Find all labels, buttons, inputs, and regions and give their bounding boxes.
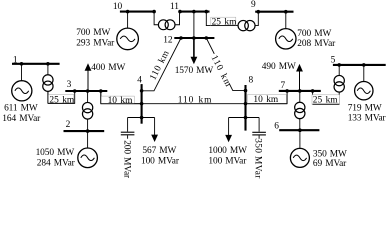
value label load bus12 [175, 66, 214, 76]
transformer T1011 bus10-bus11 [158, 20, 175, 30]
node bus11 T1011 [178, 10, 182, 14]
svg-text:12: 12 [163, 35, 173, 45]
node bus12 link [192, 36, 196, 40]
value label load bus3 [91, 63, 125, 73]
svg-text:110 km: 110 km [178, 96, 213, 106]
generator G9 at bus9 [276, 29, 296, 49]
node bus12 diag8 [205, 36, 209, 40]
node bus9 G9 [284, 10, 288, 14]
svg-text:25 km: 25 km [49, 95, 75, 105]
wire bus8 to bus7 10 km [246, 91, 288, 104]
load arrow 567 MW down at bus4 [151, 135, 158, 142]
bus 6 [279, 129, 319, 131]
wire diagonal 110 km bus12 to bus8 [206, 38, 245, 91]
bus 1 [12, 63, 60, 65]
label box 10 km between bus8 and bus7 [248, 95, 288, 106]
wire T1 down to 25 km elbow to bus3 [48, 91, 75, 103]
transformer T32 bus3-bus2 [82, 102, 92, 119]
value label at G1 [2, 104, 41, 125]
node bus5 T5 [337, 63, 341, 67]
node bus11 25km [205, 10, 209, 14]
value label at G5 [348, 103, 387, 123]
node bus3 T32 [86, 89, 90, 93]
svg-text:700 MW: 700 MW [297, 29, 331, 39]
label box 25 km between bus7 and T5 [312, 95, 340, 106]
svg-text:1000 MW: 1000 MW [208, 146, 247, 156]
wire bus8 load-capacitor tee [229, 117, 260, 119]
wire bus3 to transformer T32 [87, 91, 89, 102]
load arrow 1570 MW down at bus12 [191, 38, 198, 64]
node bus1 G1 [20, 62, 24, 66]
wire bus9 to generator G9 [285, 12, 287, 29]
value label load bus8 [208, 146, 247, 166]
wire load riser at bus4 [154, 118, 156, 136]
svg-text:100 MVar: 100 MVar [141, 157, 180, 167]
wire bus7 riser to 25 km line to T5 [313, 91, 340, 104]
wire bus10 to generator G10 [127, 12, 129, 29]
svg-text:293 MVar: 293 MVar [76, 39, 115, 49]
wire T119 to bus9 [255, 12, 258, 26]
svg-text:25 km: 25 km [212, 17, 238, 27]
node bus7 25km [311, 89, 315, 93]
wire bus2 to generator G2 [87, 131, 89, 148]
value label at G2 [36, 148, 76, 169]
svg-text:25 km: 25 km [313, 95, 339, 105]
svg-text:8: 8 [249, 76, 254, 86]
wire bus3 riser to 10 km line to bus4 [101, 91, 142, 104]
generator G6 at bus6 [290, 148, 309, 167]
svg-text:200 MVar: 200 MVar [122, 140, 132, 179]
svg-text:164 MVar: 164 MVar [2, 114, 41, 124]
transformer T1 below bus1 [43, 75, 53, 92]
load arrow 1000 MW down at bus8 [225, 135, 232, 142]
wire bus4 load-capacitor tee [128, 117, 155, 119]
capacitor C4 200 MVar at bus4 [121, 132, 135, 135]
wire bus11 to bus12 link [193, 12, 195, 38]
bus 9 [255, 11, 293, 13]
wire capacitor C8 stub [258, 135, 260, 138]
bus 4 vertical [141, 84, 143, 124]
node bus10 T1011 [152, 10, 156, 14]
bus 2 [64, 130, 105, 132]
wire load riser at bus8 [228, 118, 230, 136]
bus 11 [180, 11, 210, 13]
capacitor C8 350 MVar at bus8 [252, 132, 266, 135]
svg-text:611 MW: 611 MW [4, 104, 38, 114]
node bus7 T76 [298, 89, 302, 93]
node bus2 T32 [86, 129, 90, 133]
node bus3 10km [99, 89, 103, 93]
svg-text:284 MVar: 284 MVar [37, 159, 76, 169]
svg-text:350 MVar: 350 MVar [252, 138, 262, 179]
wire capacitor C4 riser [127, 118, 129, 132]
node bus8 load [244, 116, 248, 120]
transformer T5 below bus5 [334, 75, 344, 92]
label box 25 km between T1 and bus3 [48, 91, 75, 105]
svg-text:350 MW: 350 MW [313, 149, 347, 159]
svg-text:400 MW: 400 MW [91, 63, 125, 73]
svg-text:700 MW: 700 MW [76, 28, 110, 38]
wire T32 to bus2 [87, 119, 89, 131]
label box 10 km between bus3 and bus4 [101, 91, 142, 106]
generator G10 at bus10 [117, 28, 139, 50]
bus 7 [279, 90, 321, 92]
svg-text:208 MVar: 208 MVar [297, 39, 336, 49]
node bus4 diag [140, 89, 144, 93]
transformer T119 bus11-bus9 [238, 20, 255, 30]
wire bus5 to generator G5 [363, 65, 365, 82]
svg-text:100 MVar: 100 MVar [208, 157, 247, 167]
wire T1011 to bus11 [175, 12, 179, 25]
load arrow 400 MW up at bus3 [85, 63, 92, 91]
value label at G10 [76, 28, 115, 49]
node bus6 T76 [298, 128, 302, 132]
wire 110 km line bus4 to bus8 [142, 103, 246, 105]
bus 8 vertical [244, 85, 246, 131]
svg-text:9: 9 [251, 0, 256, 10]
generator G5 at bus5 [355, 82, 373, 100]
svg-text:567 MW: 567 MW [142, 146, 176, 156]
svg-text:6: 6 [274, 121, 279, 131]
value label load bus7 [262, 62, 296, 72]
wire capacitor C8 riser [258, 118, 260, 132]
svg-text:10: 10 [113, 2, 123, 12]
node bus11 link [192, 10, 196, 14]
wire bus1 to transformer T1 [47, 64, 49, 75]
wire diagonal 110 km bus12 to bus4 [142, 38, 181, 91]
bus 3 [65, 90, 107, 92]
wire bus7 to transformer T76 [299, 91, 301, 102]
value label load bus4 [141, 146, 180, 166]
svg-text:1570 MW: 1570 MW [175, 66, 214, 76]
wire bus6 to generator G6 [299, 130, 301, 148]
generator G2 at bus2 [78, 148, 98, 168]
load arrow 490 MW up at bus7 [296, 64, 303, 91]
wire T76 to bus6 [299, 119, 301, 131]
value label at G6 [313, 149, 347, 169]
svg-text:11: 11 [170, 2, 179, 12]
svg-text:3: 3 [67, 80, 72, 90]
svg-text:719 MW: 719 MW [348, 103, 382, 113]
svg-text:5: 5 [331, 55, 336, 65]
node bus4 load [140, 116, 144, 120]
svg-text:7: 7 [281, 81, 286, 91]
svg-text:1050 MW: 1050 MW [36, 148, 75, 158]
node bus7 10km [285, 89, 289, 93]
node bus8 line [244, 102, 248, 106]
value label at G9 [297, 29, 336, 49]
transformer T76 bus7-bus6 [295, 102, 305, 118]
svg-text:1: 1 [13, 55, 18, 65]
generator G1 at bus1 [12, 81, 32, 101]
node bus8 diag [244, 89, 248, 93]
bus 12 [174, 37, 214, 39]
bus 10 [120, 11, 155, 13]
bus 5 [333, 64, 386, 66]
node bus1 T1 [46, 62, 50, 66]
svg-text:133 MVar: 133 MVar [348, 114, 387, 124]
svg-text:110 km: 110 km [148, 49, 172, 82]
svg-text:69 MVar: 69 MVar [313, 159, 347, 169]
wire capacitor C4 stub [127, 135, 129, 138]
wire bus11 down to 25 km run to T119 [206, 12, 238, 26]
node bus12 diag4 [179, 36, 183, 40]
svg-text:4: 4 [137, 75, 142, 85]
node bus3 25km [73, 89, 77, 93]
node bus4 line [140, 102, 144, 106]
wire bus10 to transformer T1011 [154, 12, 158, 25]
svg-text:2: 2 [66, 120, 71, 130]
svg-text:10 km: 10 km [253, 95, 279, 105]
node bus9 25km [257, 10, 261, 14]
label box 25 km between bus11 and T119 [211, 17, 237, 27]
wire bus1 to generator G1 [21, 64, 23, 81]
wire bus5 to transformer T5 [338, 65, 340, 76]
label 110 km rotated along diagonal 12-8 [209, 52, 234, 89]
svg-text:10 km: 10 km [108, 96, 134, 106]
node bus5 G5 [362, 63, 366, 67]
svg-text:490 MW: 490 MW [262, 62, 296, 72]
node bus10 G10 [126, 10, 130, 14]
